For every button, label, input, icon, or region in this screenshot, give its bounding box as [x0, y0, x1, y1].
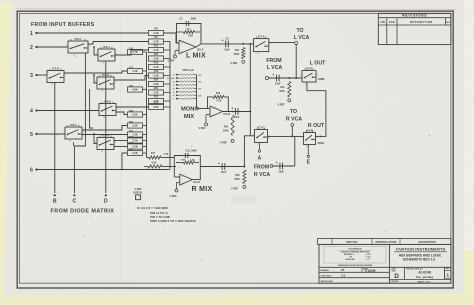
svg-text:1: 1	[97, 108, 98, 110]
svg-text:13: 13	[69, 141, 71, 143]
svg-text:R46: R46	[235, 174, 240, 177]
svg-text:2.2K: 2.2K	[153, 49, 158, 52]
svg-text:IC8-C: IC8-C	[70, 123, 77, 127]
svg-text:VR6 A-B: VR6 A-B	[182, 68, 193, 72]
svg-text:10uF: 10uF	[234, 116, 240, 119]
svg-text:2: 2	[83, 131, 84, 133]
svg-text:R17: R17	[151, 153, 156, 155]
svg-text:13: 13	[73, 55, 75, 57]
svg-text:IC5-C: IC5-C	[197, 49, 204, 52]
svg-text:R12: R12	[154, 62, 159, 65]
svg-text:2.2K: 2.2K	[132, 140, 137, 143]
svg-text:V REF: V REF	[169, 195, 177, 198]
svg-text:CHECKED: CHECKED	[321, 276, 332, 278]
svg-text:MONO: MONO	[181, 107, 200, 113]
svg-text:R20: R20	[154, 79, 159, 82]
svg-text:(IC5-A): (IC5-A)	[167, 77, 174, 80]
svg-text:L VCA: L VCA	[294, 35, 310, 41]
svg-text:+: +	[231, 106, 233, 110]
svg-text:2: 2	[270, 43, 271, 45]
svg-text:4: 4	[30, 108, 33, 114]
svg-text:MIX: MIX	[184, 114, 194, 120]
svg-text:IC 3,6,7,8 = 74HC4066: IC 3,6,7,8 = 74HC4066	[137, 206, 168, 210]
svg-text:13: 13	[101, 151, 103, 153]
svg-text:13: 13	[102, 63, 104, 65]
svg-text:PINS 5 AND 6 TO V REF DIGITAL: PINS 5 AND 6 TO V REF DIGITAL	[150, 219, 197, 223]
svg-text:DRAWN: DRAWN	[321, 269, 330, 272]
svg-text:FROM: FROM	[254, 165, 269, 171]
svg-text:13: 13	[51, 84, 53, 86]
svg-text:V REF: V REF	[198, 127, 206, 130]
svg-text:R19: R19	[216, 93, 221, 95]
svg-text:V REF: V REF	[220, 142, 228, 145]
svg-text:4.7K: 4.7K	[164, 153, 169, 156]
svg-text:IC7-C: IC7-C	[258, 125, 265, 129]
svg-text:OVATION INSTRUMENTS: OVATION INSTRUMENTS	[396, 247, 446, 252]
svg-text:V REF: V REF	[231, 187, 239, 190]
svg-text:2: 2	[65, 75, 66, 77]
svg-text:TOLERANCE: TOLERANCE	[348, 247, 362, 250]
svg-text:2.2K: 2.2K	[132, 125, 137, 128]
svg-text:DIMENSIONS IN INCHES UNLESS SP: DIMENSIONS IN INCHES UNLESS SPECIFIED	[338, 265, 373, 267]
svg-text:9: 9	[173, 99, 174, 101]
svg-text:D: D	[394, 273, 399, 280]
svg-text:G.S.: G.S.	[341, 275, 346, 278]
svg-text:2: 2	[89, 45, 90, 47]
svg-text:2: 2	[115, 81, 116, 83]
svg-text:PART NO.: PART NO.	[346, 241, 358, 244]
svg-text:DESCRIPTION: DESCRIPTION	[410, 20, 432, 24]
svg-text:1: 1	[66, 45, 67, 47]
svg-text:DESCRIPTION: DESCRIPTION	[418, 241, 435, 244]
svg-text:2: 2	[117, 108, 118, 110]
svg-text:L OUT: L OUT	[310, 61, 326, 67]
svg-text:TO: TO	[290, 109, 297, 115]
svg-text:8.2K: 8.2K	[152, 163, 157, 165]
svg-text:2.2K: 2.2K	[132, 146, 137, 149]
svg-text:ECN: ECN	[389, 20, 395, 24]
svg-text:1: 1	[300, 74, 301, 76]
svg-text:C: C	[73, 198, 77, 204]
svg-text:ENBL: ENBL	[318, 78, 325, 81]
svg-text:R21: R21	[154, 87, 159, 90]
svg-text:IC8-D: IC8-D	[306, 66, 313, 70]
svg-text:13: 13	[103, 117, 105, 119]
svg-text:BS: BS	[341, 269, 345, 272]
svg-text:R MIX: R MIX	[192, 186, 213, 193]
svg-text:500K: 500K	[234, 54, 240, 56]
svg-text:10uF: 10uF	[278, 171, 284, 174]
svg-text:LTR: LTR	[380, 20, 385, 24]
svg-text:16: 16	[172, 75, 174, 77]
svg-text:R10: R10	[154, 45, 159, 48]
svg-text:6.8K: 6.8K	[153, 106, 158, 109]
svg-text:13: 13	[172, 85, 174, 87]
svg-text:2.2K: 2.2K	[153, 32, 158, 35]
svg-text:V REF: V REF	[167, 60, 175, 63]
svg-text:R44: R44	[235, 49, 240, 52]
svg-text:FROM INPUT BUFFERS: FROM INPUT BUFFERS	[31, 22, 95, 28]
svg-text:IC7-A: IC7-A	[258, 34, 265, 38]
svg-text:2.2K: 2.2K	[188, 36, 193, 38]
svg-text:12: 12	[172, 88, 174, 90]
svg-text:IC6-A: IC6-A	[103, 45, 110, 49]
svg-text:10: 10	[172, 95, 174, 97]
svg-text:6.2K: 6.2K	[132, 152, 137, 155]
svg-text:R45: R45	[224, 126, 229, 129]
svg-text:A: A	[258, 156, 262, 162]
svg-text:FROM DIODE MATRIX: FROM DIODE MATRIX	[51, 208, 115, 214]
svg-text:IC4-D: IC4-D	[193, 181, 200, 184]
svg-text:IC8-B: IC8-B	[104, 99, 111, 103]
svg-text:1: 1	[301, 137, 302, 139]
svg-text:+: +	[276, 161, 278, 165]
svg-text:NOMENCLATURE: NOMENCLATURE	[375, 241, 396, 244]
svg-text:6.8K: 6.8K	[132, 114, 137, 117]
svg-text:10uF: 10uF	[221, 171, 227, 174]
svg-text:R VCA: R VCA	[254, 172, 270, 178]
svg-text:C10 .0068: C10 .0068	[185, 149, 197, 152]
svg-text:2.2K: 2.2K	[190, 159, 195, 161]
svg-text:4.7K: 4.7K	[216, 99, 221, 102]
svg-text:13: 13	[306, 146, 308, 148]
svg-text:SHEET 1 OF 1: SHEET 1 OF 1	[417, 281, 431, 283]
svg-text:3: 3	[30, 73, 33, 79]
svg-text:IC6-C: IC6-C	[75, 37, 82, 41]
svg-text:2: 2	[30, 45, 33, 51]
svg-text:6.8K: 6.8K	[132, 89, 137, 92]
svg-text:42-0248: 42-0248	[418, 270, 431, 274]
svg-text:APP: APP	[446, 21, 451, 24]
svg-text:L VCA: L VCA	[267, 65, 283, 71]
svg-text:R23: R23	[154, 102, 159, 105]
svg-text:2.2K: 2.2K	[132, 134, 137, 137]
svg-text:R OUT: R OUT	[308, 123, 325, 129]
svg-text:11: 11	[173, 92, 175, 94]
svg-text:2: 2	[115, 142, 116, 144]
svg-text:1: 1	[252, 43, 253, 45]
svg-text:+: +	[218, 161, 220, 165]
svg-text:R22: R22	[154, 96, 159, 99]
svg-text:1: 1	[446, 273, 449, 279]
svg-text:SCHEMATIC REV 1.0: SCHEMATIC REV 1.0	[403, 258, 436, 262]
svg-text:500K: 500K	[279, 91, 285, 93]
svg-text:+: +	[222, 39, 224, 43]
svg-text:PRINTED: PRINTED	[391, 281, 400, 283]
svg-text:IC7-B: IC7-B	[52, 66, 59, 70]
svg-text:V REF: V REF	[277, 103, 285, 106]
svg-text:2.7K: 2.7K	[132, 51, 137, 54]
svg-text:ANGULAR: ANGULAR	[346, 258, 356, 261]
svg-text:TO: TO	[296, 28, 303, 34]
svg-text:APPROVED: APPROVED	[321, 280, 334, 283]
svg-text:B: B	[53, 198, 57, 204]
svg-text:6: 6	[30, 167, 33, 173]
svg-text:2: 2	[317, 75, 318, 77]
svg-text:2.2K: 2.2K	[153, 58, 158, 61]
svg-text:V REF: V REF	[230, 62, 238, 65]
svg-text:FROM: FROM	[266, 58, 281, 64]
svg-text:2.2K: 2.2K	[153, 75, 158, 78]
svg-text:2.2K: 2.2K	[153, 66, 158, 69]
svg-text:V REF: V REF	[134, 188, 142, 191]
svg-text:7/18/99: 7/18/99	[365, 269, 376, 273]
svg-text:10uF: 10uF	[224, 49, 230, 52]
svg-text:500K: 500K	[223, 130, 229, 132]
svg-text:IC6-D: IC6-D	[306, 128, 313, 132]
svg-text:1: 1	[252, 134, 253, 136]
svg-text:2.2K: 2.2K	[132, 70, 137, 73]
svg-text:10uF: 10uF	[275, 83, 281, 86]
svg-text:+: +	[272, 73, 274, 77]
svg-text:1: 1	[45, 75, 46, 77]
svg-text:DIGITAL: DIGITAL	[133, 192, 143, 195]
svg-text:1: 1	[30, 31, 33, 37]
svg-text:6.8K: 6.8K	[153, 83, 158, 86]
svg-text:500K: 500K	[234, 179, 240, 181]
svg-text:REVISIONS: REVISIONS	[402, 14, 427, 18]
svg-text:hex_p2.dwg: hex_p2.dwg	[416, 275, 433, 279]
svg-text:R11: R11	[154, 53, 159, 56]
svg-text:R13: R13	[154, 70, 159, 73]
svg-text:IC5-D: IC5-D	[224, 113, 231, 116]
svg-text:.0068: .0068	[190, 19, 196, 21]
svg-text:UNLESS OTHERWISE SPECIFIED: UNLESS OTHERWISE SPECIFIED	[341, 251, 370, 253]
svg-text:D: D	[104, 198, 108, 204]
svg-text:ENBL: ENBL	[318, 142, 325, 145]
svg-text:2.2K: 2.2K	[153, 41, 158, 44]
svg-text:2.2K: 2.2K	[153, 92, 158, 95]
svg-text:1: 1	[63, 131, 64, 133]
svg-text:R VCA: R VCA	[286, 117, 302, 123]
svg-text:13: 13	[257, 53, 259, 55]
svg-text:5: 5	[30, 132, 33, 138]
svg-text:13: 13	[101, 91, 103, 93]
svg-text:L MIX: L MIX	[186, 53, 206, 60]
svg-text:R42: R42	[280, 86, 285, 89]
svg-text:2: 2	[316, 137, 317, 139]
svg-text:± 1°: ± 1°	[366, 259, 369, 261]
